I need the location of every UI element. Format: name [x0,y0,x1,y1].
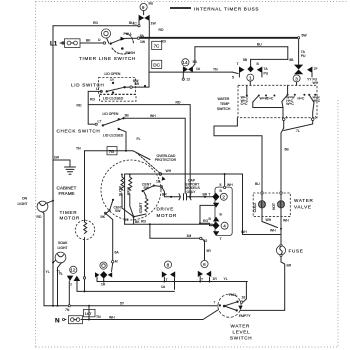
svg-text:VALVE: VALVE [294,205,312,210]
svg-text:SWITCH: SWITCH [217,107,231,111]
svg-text:1: 1 [249,76,252,81]
fuse F1 (line fuse) [65,39,81,48]
label water level switch [230,324,252,341]
svg-text:L1: L1 [50,41,58,48]
wire left rail [52,26,54,306]
timer cam (timer line switch actuator) [101,29,110,43]
svg-text:START: START [139,203,143,214]
wire rail 8-12 [77,290,175,292]
svg-text:T: T [70,283,72,287]
svg-text:HOT: HOT [272,203,276,210]
wire top edge of timer line switch loop [53,25,138,27]
svg-text:BR: BR [203,192,208,196]
timer terminal box DC [152,60,162,68]
wire on-light drop [43,214,45,306]
svg-text:TN: TN [96,315,101,319]
wire terminal to contact 6 [202,239,205,260]
svg-text:SWITCH: SWITCH [230,336,252,341]
svg-text:WH: WH [150,114,156,118]
svg-text:TIMER: TIMER [60,210,78,215]
lid closed sub-box [100,95,137,102]
fuse F2 [276,244,303,256]
lid switch S2 [71,72,139,94]
wire from node 9 to contact [143,11,145,15]
wire drop to contact 1 [250,59,252,66]
lamp DS2: soak light [46,241,69,306]
svg-text:YL: YL [46,270,50,274]
svg-text:1M: 1M [187,234,192,238]
svg-text:7N: 7N [65,308,70,312]
timer contact 14 bowtie [182,66,193,81]
svg-text:5B: 5B [285,148,290,152]
timer contact 8 [161,261,175,289]
wire WH rail / motor frame [125,174,243,224]
water temp switch box (dashed) [238,85,317,117]
wire lid switch input rail RD [88,91,101,124]
motor start winding [139,199,148,214]
svg-text:7L: 7L [296,129,300,133]
svg-text:7F: 7F [314,67,318,71]
svg-text:T: T [237,62,239,66]
motor centrifugal switch upper [142,182,168,198]
svg-text:TN: TN [76,146,81,150]
svg-text:PROTECTOR: PROTECTOR [155,158,177,162]
svg-text:RD: RD [141,219,146,223]
svg-text:1A: 1A [161,285,166,289]
wire valve outputs merge [262,217,278,228]
svg-text:12: 12 [70,268,76,273]
svg-text:YY: YY [307,77,312,81]
svg-text:TIMER LINE SWITCH: TIMER LINE SWITCH [79,56,136,61]
timer terminal box 14T [84,306,96,320]
svg-text:SW: SW [115,209,121,213]
svg-text:PULL: PULL [124,32,133,36]
svg-text:T: T [209,192,211,196]
svg-text:MOTOR: MOTOR [157,213,178,218]
svg-text:5: 5 [220,183,222,187]
terminal L1 [50,41,65,48]
svg-text:YL: YL [224,277,228,281]
svg-text:9: 9 [142,5,145,10]
solenoid: hot valve [272,192,285,217]
wire check switch lower branch [119,129,126,151]
motor centrifugal switch lower [101,199,123,219]
svg-text:COLD: COLD [253,202,257,212]
svg-text:RD: RD [176,100,181,104]
svg-text:EMPTY: EMPTY [239,314,251,318]
svg-text:1B: 1B [156,179,161,183]
svg-text:5R: 5R [207,249,212,253]
svg-text:T: T [220,237,222,241]
timer terminal box 7C [152,41,162,49]
svg-text:5Y: 5Y [120,301,125,305]
svg-text:W+C: W+C [286,102,294,106]
svg-text:1R: 1R [213,277,218,281]
svg-text:WH: WH [227,183,233,187]
terminal N and neutral rail [55,317,66,324]
legend: internal timer buss [170,6,259,11]
svg-text:BU: BU [149,2,154,6]
wire top feed of block [224,174,226,186]
wire motor lower rail to terminal [150,224,200,238]
svg-text:4: 4 [286,115,288,119]
svg-text:PUSH: PUSH [126,51,136,55]
svg-text:LID CLOSED: LID CLOSED [103,134,124,138]
svg-text:H+C: H+C [298,96,305,100]
svg-text:1: 1 [315,115,317,119]
svg-text:RD: RD [37,215,42,219]
svg-text:FL: FL [137,137,141,141]
svg-text:LIGHT: LIGHT [58,246,68,250]
wire bus drop to contact 3 [298,38,300,65]
timer terminal box 7B [107,147,117,155]
svg-text:LT: LT [96,87,100,91]
wire bus drop to lid switch [148,38,150,87]
timer contact 3 (circle 3 with triangles) [293,65,319,85]
svg-text:8: 8 [167,263,170,268]
svg-text:5B: 5B [243,58,248,62]
svg-text:6A: 6A [115,250,120,254]
svg-text:PU: PU [301,54,306,58]
wire cent sw to timer contact 10 [105,213,112,260]
timer contact 10 [95,262,112,287]
svg-text:WH: WH [266,218,272,222]
svg-text:5B: 5B [289,58,294,62]
fuse F3 (neutral fuse) [69,316,83,324]
svg-text:7: 7 [214,300,216,304]
svg-text:RD: RD [159,28,164,32]
water temp switch internal contacts [241,81,321,118]
svg-text:WATER: WATER [231,324,251,329]
node terminals under water temp box [282,118,285,121]
svg-text:6: 6 [203,262,206,267]
svg-text:1W: 1W [151,21,157,25]
svg-text:LID OPEN: LID OPEN [105,72,121,76]
svg-text:5: 5 [232,76,234,80]
svg-text:WATER: WATER [218,97,230,101]
svg-text:TN: TN [213,68,218,72]
capacitor C1 (export models) [164,179,213,200]
svg-text:MOTOR: MOTOR [60,216,81,221]
svg-text:WH: WH [270,229,276,233]
svg-text:BK: BK [101,215,106,219]
wire RD branch to motor column [88,105,190,197]
overload protector [136,152,177,183]
svg-text:WH: WH [241,230,247,234]
wire rail 5Y [44,305,219,307]
svg-text:ON: ON [22,197,28,201]
svg-text:YL: YL [57,270,61,274]
wire check switch WH to motor area [124,118,186,193]
motor windings slow/high [119,174,132,197]
check switch S3 [57,112,130,138]
timer line switch S1 [103,32,146,55]
svg-text:1W: 1W [140,40,146,44]
svg-text:1Y: 1Y [110,78,115,82]
svg-text:3: 3 [295,76,298,81]
svg-text:C+C: C+C [267,96,274,100]
svg-text:BU: BU [129,21,134,25]
svg-text:FRAME: FRAME [59,191,75,196]
svg-text:4: 4 [223,224,226,229]
svg-text:WH: WH [313,81,319,85]
wire 5B link [251,58,288,60]
timer switch block (circles 2 and 4) [212,187,232,241]
svg-text:ONLY: ONLY [187,190,197,194]
svg-text:RD: RD [93,21,98,25]
timer motor M1 [60,210,95,240]
water level switch S4 [214,293,252,318]
svg-text:FULL: FULL [229,293,237,297]
wire fuse to switch [80,42,103,44]
wire lid switch output to bus drop [132,86,149,88]
svg-text:RD: RD [90,98,95,102]
wire neutral rail WH [81,319,203,321]
svg-text:12: 12 [186,77,190,81]
internal timer buss wire [140,37,299,39]
wire BU drop [287,47,289,60]
svg-text:LIGHT: LIGHT [18,202,28,206]
svg-text:1R: 1R [101,283,106,287]
wire block left step [200,205,215,223]
timer contact 12 [57,266,81,306]
svg-text:BK: BK [86,39,91,43]
svg-text:14: 14 [182,60,188,65]
svg-text:CABINET: CABINET [57,186,77,191]
svg-text:LT: LT [98,120,102,124]
wire diagonal to overload protector [133,151,150,160]
timer contact 1 (circle 1 with triangles) [232,62,269,81]
timer contact 9 bowtie [133,15,164,38]
svg-text:DC: DC [153,63,160,68]
svg-text:1A: 1A [196,67,201,71]
svg-text:WH: WH [109,315,115,319]
solenoid: cold valve [253,192,266,217]
wire TN diagonal into contact 1 [149,71,232,73]
svg-text:PU: PU [264,71,269,75]
wire node14 to BU feeder [193,47,195,67]
svg-text:3B: 3B [125,114,130,118]
svg-text:INTERNAL TIMER BUSS: INTERNAL TIMER BUSS [194,6,259,11]
svg-text:BU: BU [257,42,262,46]
motor junction to bottom [122,194,146,224]
node 14 (timer contact circle 14) [182,59,198,66]
timer contact 6 [198,260,218,281]
wire fuse down to water level switch [238,257,285,311]
svg-text:LID CLOSED: LID CLOSED [103,97,124,101]
lamp DS1: on light [18,197,55,219]
svg-text:14 T: 14 T [85,312,92,316]
svg-text:SOAK: SOAK [58,241,68,245]
wire motor bottom rail [125,223,213,225]
svg-text:7B: 7B [109,149,115,154]
svg-text:2: 2 [222,195,225,200]
svg-text:N: N [55,317,60,324]
svg-text:DRIVE: DRIVE [157,206,175,211]
wire to contact 4 [200,223,212,225]
drive motor M2 (dashed circle) [101,160,177,220]
wire valve feeds [214,118,262,192]
wire BU feeder [195,46,288,48]
svg-text:BR: BR [135,82,140,86]
svg-text:5W: 5W [302,34,308,38]
wire timer motor column [84,151,86,222]
svg-text:WH: WH [166,169,172,173]
svg-text:5T: 5T [125,218,129,222]
svg-text:M: M [115,260,118,264]
ground: cabinet frame [53,156,77,197]
svg-text:LEVEL: LEVEL [233,330,251,335]
svg-text:T: T [201,277,203,281]
svg-text:CHECK SWITCH: CHECK SWITCH [57,129,101,134]
svg-text:BR: BR [162,192,167,196]
svg-text:C+C: C+C [241,102,248,106]
svg-text:RD: RD [77,104,82,108]
svg-text:16: 16 [242,296,246,300]
wire rail to water level switch (full) [97,281,247,283]
svg-text:BU: BU [255,182,260,186]
svg-text:BK: BK [135,220,140,224]
node 9 (timer contact circle 9) [140,2,154,11]
svg-text:WATER: WATER [294,198,314,203]
svg-text:WH: WH [283,218,289,222]
water valve box (dashed) [253,193,313,217]
svg-text:FUSE: FUSE [289,248,304,253]
svg-text:GR: GR [54,156,60,160]
wire drop WH to fuse [243,174,282,235]
svg-text:TEMP: TEMP [220,102,230,106]
svg-text:BR: BR [287,263,292,267]
wire 7B feed [85,150,134,152]
svg-text:LID OPEN: LID OPEN [103,112,119,116]
svg-text:7C: 7C [154,44,161,49]
